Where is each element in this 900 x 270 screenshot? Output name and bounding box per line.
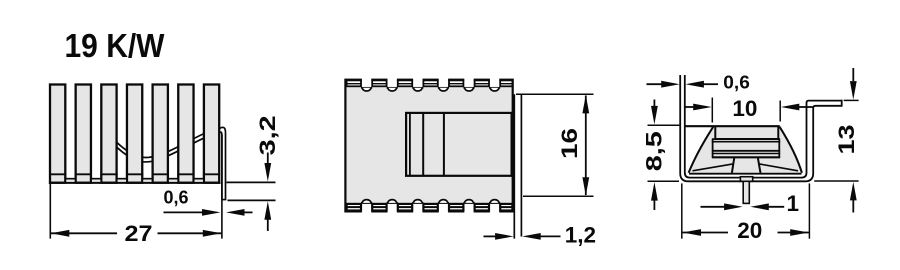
fin gaps bottom edge (scallops) — [361, 200, 500, 214]
title thermal resistance 19 K/W — [65, 27, 166, 64]
fin gaps top edge (scallops) — [361, 77, 500, 91]
fin tips top (striped) — [347, 80, 513, 86]
svg-text:8,5: 8,5 — [641, 131, 666, 171]
dimension 27 extension lines — [50, 135, 222, 239]
transistor flange band — [712, 139, 780, 158]
dimension 16 — [557, 95, 589, 196]
heatsink channel inner contour — [685, 75, 842, 178]
dimension 8,5 extension lines — [648, 125, 681, 181]
clip bent lip (right edge) — [514, 94, 521, 238]
svg-text:13: 13 — [834, 125, 859, 155]
dimension 0,6 (side) — [647, 73, 750, 93]
svg-text:10: 10 — [732, 96, 757, 121]
heatsink body (top view) — [345, 80, 512, 212]
dimension 10 — [686, 96, 813, 121]
dimension 13 extension lines — [814, 100, 858, 181]
dimension 16 extension lines — [516, 94, 594, 196]
dimension 0,6 (front) — [164, 188, 253, 216]
dimension 27 — [51, 221, 222, 246]
dimension 10 extension lines — [712, 98, 780, 123]
dimension 3,2 extension lines — [227, 182, 276, 200]
svg-text:20: 20 — [737, 218, 762, 243]
dimension 20 extension lines — [682, 183, 810, 238]
clip plate (top view) — [406, 113, 512, 177]
svg-text:19 K/W: 19 K/W — [65, 27, 166, 64]
transistor body (bell shape) fill — [689, 127, 802, 173]
clip spring curve (seen between fins) — [117, 129, 219, 162]
svg-text:1: 1 — [787, 191, 800, 216]
svg-text:0,6: 0,6 — [723, 73, 750, 93]
dimension 20 — [682, 218, 809, 243]
heatsink channel outer contour — [680, 75, 842, 181]
svg-text:1,2: 1,2 — [565, 222, 596, 247]
clip top plate — [684, 126, 780, 139]
base slots between fins — [65, 179, 204, 182]
heatsink fins (front view, 7 fins) — [49, 85, 220, 183]
dimension 1,2 — [484, 222, 597, 247]
fin tips bottom (striped) — [347, 204, 513, 211]
flange end cap — [841, 100, 843, 107]
dimension 1 — [701, 191, 800, 216]
dimension 8,5 — [641, 100, 666, 211]
clip feet slant lines — [693, 164, 799, 171]
svg-text:0,6: 0,6 — [164, 188, 189, 208]
transistor center tab dividers — [732, 158, 761, 173]
svg-text:16: 16 — [557, 128, 582, 159]
dimension 3,2 — [255, 115, 280, 231]
dimension 13 — [834, 68, 859, 213]
base bottom edge — [49, 182, 221, 184]
svg-text:3,2: 3,2 — [255, 115, 280, 155]
lead shoulder — [740, 177, 752, 182]
transistor lead — [743, 181, 749, 203]
svg-text:27: 27 — [125, 221, 153, 246]
transistor seating line — [689, 173, 802, 175]
clip hook / solder tab (right) — [219, 127, 226, 199]
